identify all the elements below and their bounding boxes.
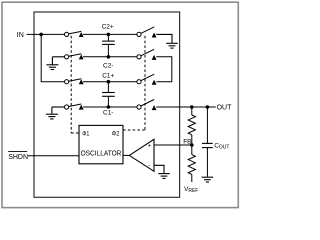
svg-text:FB: FB xyxy=(183,138,191,145)
switch S2 (row2 left, phase 1) xyxy=(65,54,84,60)
node C1 bottom xyxy=(107,105,111,109)
wire row3 mid xyxy=(83,81,137,83)
wire row4 mid xyxy=(83,106,137,108)
svg-text:C1+: C1+ xyxy=(102,72,114,79)
switch S3 (row3 left, phase 1) xyxy=(65,79,84,85)
svg-text:OUT: OUT xyxy=(217,104,233,111)
node C2 bottom xyxy=(107,55,111,59)
outer frame xyxy=(2,2,238,207)
resistor R1 (OUT to FB) xyxy=(188,107,195,145)
switch S8 (row4 right, phase 2) xyxy=(137,100,157,111)
capacitor COUT xyxy=(202,107,213,177)
svg-text:C1-: C1- xyxy=(103,110,113,117)
node at COUT xyxy=(206,105,210,109)
node IN junction xyxy=(39,33,43,37)
node FB xyxy=(190,143,194,147)
wire IN to switch S1 xyxy=(27,33,65,35)
svg-text:VREF: VREF xyxy=(184,186,198,194)
wire SHDN to oscillator xyxy=(28,155,79,157)
svg-text:SHDN: SHDN xyxy=(8,154,28,161)
ground (row4 left) xyxy=(46,107,65,119)
ground (COUT) xyxy=(202,177,214,182)
ground (op-amp minus input) xyxy=(154,165,170,178)
op-amp comparator xyxy=(129,139,154,171)
wire row4 to OUT xyxy=(156,106,216,108)
svg-text:Φ2: Φ2 xyxy=(112,130,120,137)
svg-text:C2+: C2+ xyxy=(102,23,114,30)
dashed control line phase 2 xyxy=(123,36,145,130)
switch S1 (row1 left, phase 1) xyxy=(65,31,84,37)
IC body box xyxy=(34,12,180,197)
ground (row1 right) xyxy=(156,34,178,48)
node C2 top xyxy=(107,33,111,37)
svg-text:COUT: COUT xyxy=(214,143,229,151)
resistor R2 (FB to VREF) xyxy=(188,145,195,182)
node at resistor divider xyxy=(190,105,194,109)
wire row2 mid xyxy=(83,56,137,58)
svg-text:+: + xyxy=(148,143,152,149)
node C1 top xyxy=(107,80,111,84)
svg-text:-: - xyxy=(148,163,150,169)
switch S5 (row1 right, phase 2) xyxy=(137,27,157,38)
wire plus input to FB xyxy=(154,144,192,146)
oscillator U1 box xyxy=(79,125,123,163)
svg-text:C2-: C2- xyxy=(103,62,113,69)
svg-text:IN: IN xyxy=(17,32,24,39)
ground (row2 left) xyxy=(46,57,64,70)
svg-text:OSCILLATOR: OSCILLATOR xyxy=(81,151,122,158)
capacitor C2 xyxy=(102,34,115,56)
wire IN junction down to row3 xyxy=(41,34,64,81)
capacitor C1 xyxy=(102,82,115,107)
svg-text:Φ1: Φ1 xyxy=(82,130,89,137)
wire row2-row3 right connector xyxy=(156,57,172,82)
wire row1 mid xyxy=(83,33,137,35)
switch S7 (row3 right, phase 2) xyxy=(137,74,157,85)
wire op-amp output to oscillator xyxy=(123,154,129,156)
switch S4 (row4 left, phase 1) xyxy=(65,104,84,110)
switch S6 (row2 right, phase 2) xyxy=(137,49,157,60)
dashed control line phase 1 xyxy=(71,36,79,133)
